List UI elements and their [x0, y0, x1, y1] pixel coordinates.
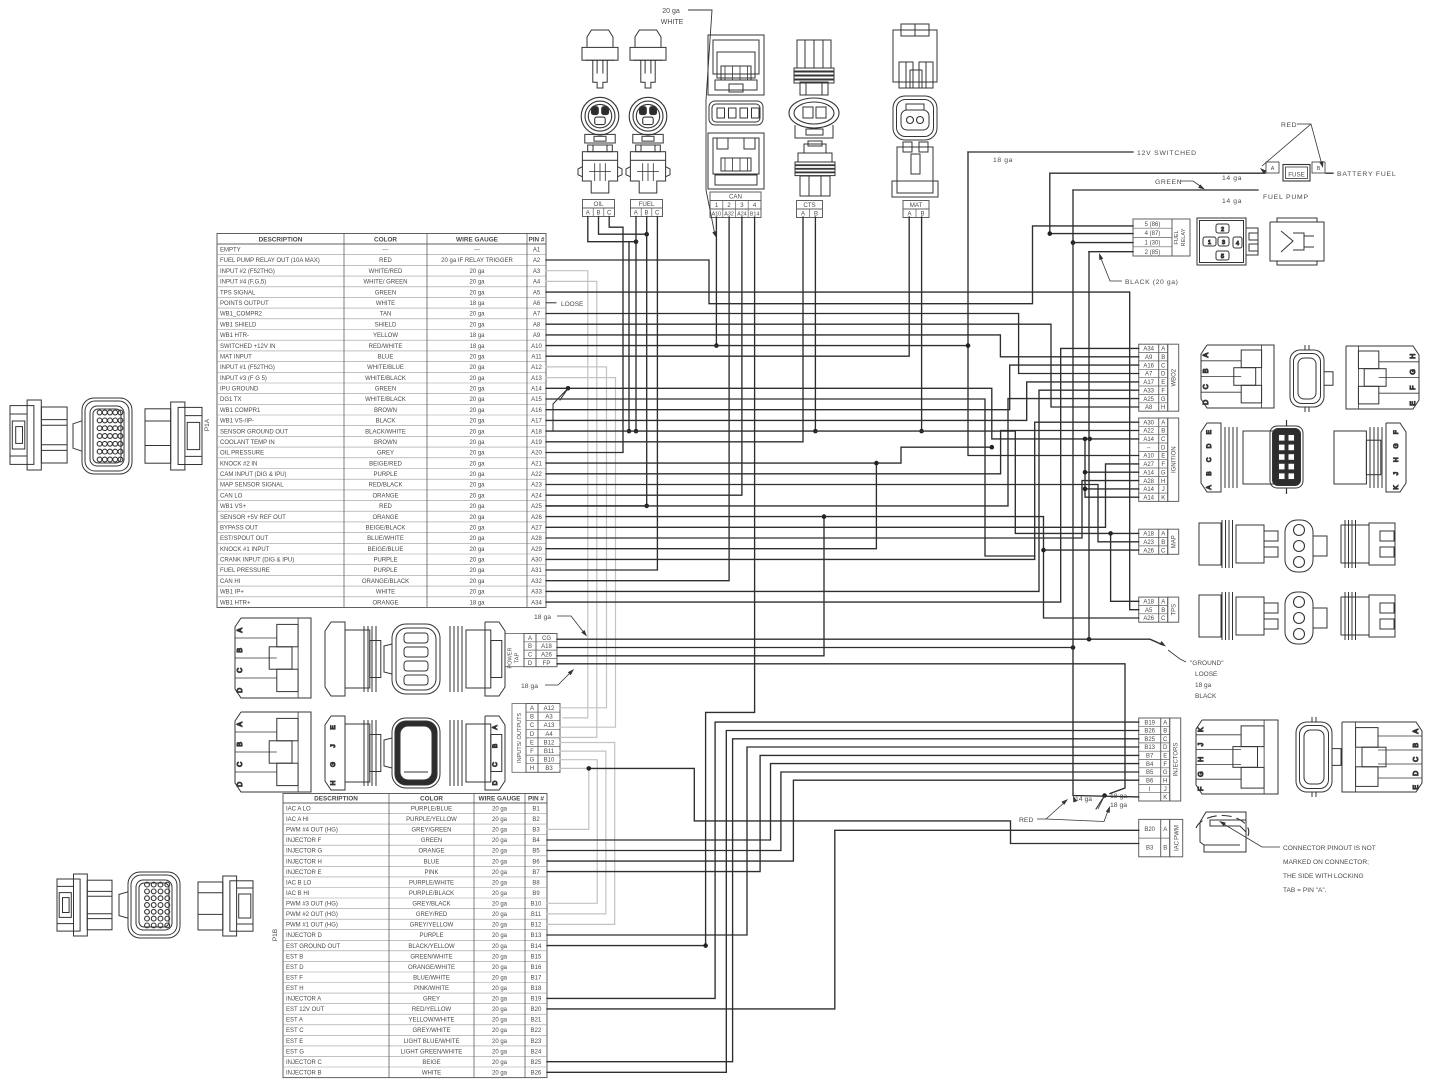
connector CTS top view [794, 40, 834, 95]
svg-text:B3: B3 [1146, 846, 1154, 852]
wire FUEL A down to A18 [635, 217, 637, 432]
svg-text:INJECTOR E: INJECTOR E [286, 870, 322, 876]
svg-text:PWM #4 OUT (HG): PWM #4 OUT (HG) [286, 828, 338, 834]
connector quad1 oval view [384, 624, 440, 694]
svg-text:A12: A12 [531, 365, 542, 371]
svg-text:WB1 COMPR1: WB1 COMPR1 [220, 408, 261, 414]
connector FUEL top view [630, 30, 666, 88]
svg-text:E: E [1163, 754, 1167, 760]
svg-text:B12: B12 [544, 740, 555, 746]
table TPS pins [1139, 597, 1179, 622]
svg-text:20 ga: 20 ga [469, 269, 485, 275]
svg-text:D: D [1163, 745, 1168, 751]
wire A12 to inputs (grey) [546, 367, 607, 708]
connector P1B front view 26-pin [119, 872, 180, 938]
svg-text:B18: B18 [531, 986, 542, 992]
svg-text:K: K [1393, 485, 1400, 490]
svg-text:INJECTORS: INJECTORS [1173, 743, 1179, 777]
svg-text:B21: B21 [531, 1018, 542, 1024]
wire A14 branch to ignition G J K [1085, 439, 1139, 497]
svg-text:20 ga: 20 ga [492, 859, 508, 865]
svg-text:A24: A24 [531, 493, 542, 499]
svg-text:18 ga: 18 ga [534, 614, 551, 621]
svg-text:INPUT #1 (F52THG): INPUT #1 (F52THG) [220, 365, 275, 371]
svg-text:POWER: POWER [508, 647, 514, 668]
svg-text:LOOSE: LOOSE [1195, 671, 1218, 678]
table FUEL RELAY pins [1133, 219, 1190, 256]
svg-text:A26: A26 [1143, 616, 1154, 622]
svg-text:INJECTOR F: INJECTOR F [286, 838, 322, 844]
svg-text:BROWN: BROWN [374, 440, 397, 446]
svg-text:INPUT #3 (F G 5): INPUT #3 (F G 5) [220, 376, 267, 382]
svg-text:A11: A11 [531, 354, 542, 360]
svg-text:20 ga: 20 ga [469, 590, 485, 596]
svg-text:J: J [1164, 787, 1167, 793]
svg-text:IAC PWM: IAC PWM [1174, 825, 1180, 851]
svg-text:B: B [1161, 608, 1165, 614]
svg-text:H: H [1393, 457, 1400, 462]
wire black relay dot on ignition C [1087, 437, 1092, 442]
svg-text:D: D [492, 780, 499, 785]
svg-text:A9: A9 [1145, 355, 1153, 361]
svg-text:INPUT #2 (F52THG): INPUT #2 (F52THG) [220, 269, 275, 275]
svg-text:A27: A27 [531, 526, 542, 532]
svg-text:B3: B3 [545, 766, 553, 772]
svg-text:PURPLE/YELLOW: PURPLE/YELLOW [406, 817, 457, 823]
svg-text:PURPLE/BLUE: PURPLE/BLUE [411, 807, 452, 813]
connector quad1 side view [325, 622, 381, 696]
svg-text:C: C [1161, 616, 1166, 622]
svg-text:RED: RED [1019, 817, 1033, 824]
wire A2 fuel pump relay out [546, 226, 1133, 304]
svg-text:BLUE: BLUE [424, 859, 440, 865]
svg-text:A18: A18 [1143, 532, 1154, 538]
svg-text:KNOCK #1 INPUT: KNOCK #1 INPUT [220, 547, 270, 553]
connector quad2 plug view [235, 712, 311, 792]
svg-text:OIL: OIL [594, 201, 605, 208]
svg-text:A: A [1271, 166, 1275, 172]
svg-text:EST GROUND OUT: EST GROUND OUT [286, 944, 341, 950]
svg-text:SHIELD: SHIELD [375, 322, 397, 328]
connector TPS harness side [1199, 592, 1278, 640]
svg-text:18 ga: 18 ga [993, 157, 1013, 164]
svg-text:BEIGE/BLACK: BEIGE/BLACK [366, 526, 406, 532]
svg-text:A19: A19 [531, 440, 542, 446]
svg-text:20 ga: 20 ga [492, 838, 508, 844]
wire B6 to injector H [547, 780, 1139, 861]
svg-text:CTS: CTS [803, 202, 815, 209]
svg-text:BLUE: BLUE [378, 354, 394, 360]
svg-text:K: K [1161, 495, 1165, 501]
wire B5 to injector G [547, 772, 1139, 851]
svg-text:RED/BLACK: RED/BLACK [368, 483, 402, 489]
svg-text:20 ga: 20 ga [469, 472, 485, 478]
wire A18 branch TPS A [1111, 533, 1139, 601]
svg-text:MARKED ON CONNECTOR;: MARKED ON CONNECTOR; [1283, 859, 1369, 866]
svg-text:A29: A29 [531, 547, 542, 553]
svg-text:WB1 VS-/IP-: WB1 VS-/IP- [220, 419, 254, 425]
wire B11 to inputs F (grey) [547, 751, 606, 914]
svg-text:INJECTOR B: INJECTOR B [286, 1071, 322, 1077]
svg-text:20 ga: 20 ga [469, 365, 485, 371]
svg-text:A4: A4 [533, 280, 541, 286]
wire group [546, 152, 1333, 1072]
wire CAN 2 down to A32 [546, 217, 729, 581]
svg-text:20 ga: 20 ga [469, 440, 485, 446]
svg-text:B: B [237, 742, 244, 747]
svg-text:WB1 IP+: WB1 IP+ [220, 590, 244, 596]
svg-text:B13: B13 [1144, 745, 1155, 751]
table FUEL pins [631, 200, 663, 217]
svg-text:B4: B4 [532, 838, 540, 844]
svg-text:20 ga: 20 ga [469, 483, 485, 489]
svg-text:GREY/RED: GREY/RED [416, 912, 448, 918]
svg-text:20 ga IF RELAY TRIGGER: 20 ga IF RELAY TRIGGER [441, 258, 513, 264]
wire A25 to WBO2 G [546, 399, 1139, 506]
svg-text:PWM #3 OUT (HG): PWM #3 OUT (HG) [286, 902, 338, 908]
svg-text:20 ga: 20 ga [469, 461, 485, 467]
svg-text:EST E: EST E [286, 1039, 303, 1045]
svg-text:G: G [1161, 470, 1166, 476]
svg-text:A22: A22 [531, 472, 542, 478]
wire CAN 3 down to A24 [546, 217, 742, 495]
svg-text:D: D [528, 661, 533, 667]
wire OIL junction to A18 [628, 242, 630, 431]
svg-text:B13: B13 [531, 933, 542, 939]
wire B7 to injector E [547, 755, 1139, 871]
svg-text:A25: A25 [531, 504, 542, 510]
svg-text:B: B [492, 744, 499, 748]
connector CTS bottom view [795, 141, 835, 196]
connector P1A rear side view [10, 400, 67, 470]
svg-text:B26: B26 [1144, 729, 1155, 735]
svg-text:MAP SENSOR SIGNAL: MAP SENSOR SIGNAL [220, 483, 284, 489]
svg-text:A8: A8 [533, 322, 541, 328]
svg-text:14 ga: 14 ga [1222, 175, 1242, 182]
svg-text:20 ga: 20 ga [492, 997, 508, 1003]
svg-text:ORANGE: ORANGE [372, 493, 398, 499]
svg-text:WHITE: WHITE [661, 19, 684, 26]
connector OIL bottom view [578, 145, 622, 193]
svg-text:PIN #: PIN # [529, 236, 545, 243]
svg-text:20 ga: 20 ga [492, 912, 508, 918]
svg-text:G: G [1198, 771, 1205, 776]
svg-text:20 ga: 20 ga [492, 849, 508, 855]
svg-text:COLOR: COLOR [420, 795, 443, 802]
svg-text:CAN HI: CAN HI [220, 579, 241, 585]
svg-text:B: B [1161, 540, 1165, 546]
connector MAT face view [893, 96, 937, 140]
svg-text:EST H: EST H [286, 986, 304, 992]
svg-text:20 ga: 20 ga [469, 419, 485, 425]
svg-text:EST 12V OUT: EST 12V OUT [286, 1007, 325, 1013]
svg-text:ORANGE: ORANGE [418, 849, 444, 855]
svg-text:20 ga: 20 ga [469, 451, 485, 457]
wire CG ground out [557, 639, 1163, 645]
fuse terminal B [1312, 162, 1325, 173]
svg-text:PINK/WHITE: PINK/WHITE [414, 986, 449, 992]
connector quad2 mating view [450, 716, 505, 790]
svg-text:WB1 VS+: WB1 VS+ [220, 504, 247, 510]
svg-text:A14: A14 [1143, 470, 1154, 476]
wire A10 12V switched in [546, 345, 968, 347]
wire A28 to ignition H [546, 481, 1139, 538]
svg-text:H: H [530, 766, 534, 772]
svg-text:WHITE/RED: WHITE/RED [369, 269, 403, 275]
svg-text:PURPLE: PURPLE [373, 568, 397, 574]
svg-text:D: D [1206, 443, 1213, 448]
svg-text:A7: A7 [1145, 372, 1153, 378]
wire A15 dg1 tx [546, 399, 1035, 556]
connector CAN top view [708, 35, 764, 95]
svg-text:YELLOW: YELLOW [373, 333, 398, 339]
svg-text:EST/SPOUT OUT: EST/SPOUT OUT [220, 536, 269, 542]
svg-text:A15: A15 [531, 397, 542, 403]
svg-text:FP: FP [543, 661, 551, 667]
svg-text:20 ga: 20 ga [492, 975, 508, 981]
wire A14 to ignition C [546, 388, 1139, 439]
svg-text:B: B [1161, 355, 1165, 361]
fuse box [1283, 165, 1310, 182]
svg-text:B: B [596, 210, 600, 216]
svg-text:ORANGE/BLACK: ORANGE/BLACK [362, 579, 409, 585]
svg-text:GREY/WHITE: GREY/WHITE [412, 1028, 450, 1034]
svg-text:A17: A17 [1143, 380, 1154, 386]
svg-text:CAM INPUT (DIG & IPU): CAM INPUT (DIG & IPU) [220, 472, 287, 478]
connector TPS face view [1285, 592, 1327, 644]
svg-text:20 ga: 20 ga [492, 1060, 508, 1066]
svg-text:CONNECTOR PINOUT IS NOT: CONNECTOR PINOUT IS NOT [1283, 845, 1376, 852]
svg-text:A9: A9 [533, 333, 541, 339]
wire A9 to WBO2 B [546, 335, 1139, 357]
svg-text:C: C [1161, 548, 1166, 554]
svg-text:RED: RED [379, 258, 392, 264]
svg-text:---: --- [383, 248, 389, 254]
svg-text:5: 5 [1221, 254, 1224, 260]
connector quad1 plug view [235, 618, 311, 698]
svg-text:A: A [634, 210, 638, 216]
svg-text:5 (86): 5 (86) [1145, 222, 1161, 228]
svg-text:C: C [1163, 737, 1168, 743]
connector P1B side view [198, 876, 253, 936]
connector INJECTORS harness side [1196, 720, 1278, 794]
svg-text:INJECTOR H: INJECTOR H [286, 859, 322, 865]
svg-text:20 ga: 20 ga [469, 579, 485, 585]
svg-text:GREEN/WHITE: GREEN/WHITE [410, 954, 452, 960]
svg-text:IGNITION: IGNITION [1171, 446, 1177, 473]
svg-text:G: G [330, 762, 337, 767]
svg-text:20 ga: 20 ga [469, 387, 485, 393]
svg-text:WHITE/BLACK: WHITE/BLACK [365, 397, 406, 403]
wire A26 branch MAP C [1044, 549, 1139, 551]
svg-text:PURPLE/WHITE: PURPLE/WHITE [409, 880, 454, 886]
svg-text:G: G [1161, 397, 1166, 403]
svg-text:G: G [530, 758, 535, 764]
svg-text:14 ga: 14 ga [1075, 796, 1092, 803]
wire A29 knock 1 [546, 463, 876, 549]
wire OIL B join FUEL B [599, 217, 647, 235]
svg-text:PURPLE/BLACK: PURPLE/BLACK [409, 891, 454, 897]
svg-text:B16: B16 [531, 965, 542, 971]
wire B4 to injector F [547, 764, 1139, 840]
wire A17 to WBO2 E [546, 382, 1139, 421]
svg-text:20 ga: 20 ga [492, 1028, 508, 1034]
svg-text:MAT INPUT: MAT INPUT [220, 354, 252, 360]
svg-text:C: C [1161, 363, 1166, 369]
svg-text:K: K [1198, 727, 1205, 732]
svg-text:BLACK (20 ga): BLACK (20 ga) [1125, 279, 1179, 286]
svg-text:F: F [530, 749, 534, 755]
svg-text:B: B [644, 210, 648, 216]
svg-text:20 ga: 20 ga [492, 986, 508, 992]
wire A8 to WBO2 H [546, 324, 1139, 407]
svg-text:A26: A26 [541, 653, 552, 659]
svg-text:TAB = PIN "A".: TAB = PIN "A". [1283, 887, 1327, 894]
wire 12V switched drop to ignition E [968, 152, 1139, 456]
svg-text:A1: A1 [533, 248, 541, 254]
svg-text:B3: B3 [532, 828, 540, 834]
svg-text:COLOR: COLOR [374, 236, 397, 243]
svg-text:FUEL: FUEL [639, 201, 655, 208]
svg-text:GREEN: GREEN [421, 838, 442, 844]
svg-text:20 ga: 20 ga [492, 817, 508, 823]
svg-text:A23: A23 [531, 483, 542, 489]
svg-text:18 ga: 18 ga [469, 600, 485, 606]
svg-text:A: A [1413, 729, 1420, 734]
svg-text:B7: B7 [1146, 754, 1154, 760]
wire A18 sensor ground bus [546, 431, 1139, 533]
svg-text:20 ga: 20 ga [492, 891, 508, 897]
svg-text:A: A [528, 636, 532, 642]
svg-text:GREY/GREEN: GREY/GREEN [411, 828, 451, 834]
wire CAN 1 down to A10 [715, 217, 717, 346]
wire MAT A down to A11 [546, 217, 909, 356]
label POWER TAP [505, 634, 524, 667]
svg-text:INJECTOR G: INJECTOR G [286, 849, 323, 855]
svg-text:FUSE: FUSE [1288, 172, 1305, 179]
svg-text:EST F: EST F [286, 975, 303, 981]
svg-text:BLACK: BLACK [1195, 693, 1217, 700]
svg-text:GREEN: GREEN [375, 290, 396, 296]
svg-text:20 ga: 20 ga [492, 1049, 508, 1055]
svg-text:E: E [1206, 429, 1213, 434]
svg-text:B6: B6 [1146, 779, 1154, 785]
svg-text:20 ga: 20 ga [469, 354, 485, 360]
connector WBO2 mating side [1346, 346, 1419, 409]
svg-text:18 ga: 18 ga [469, 333, 485, 339]
table INPUTS OUTPUTS pins [526, 704, 560, 773]
wire A30 to ignition A [546, 422, 1139, 559]
svg-text:A18: A18 [531, 429, 542, 435]
svg-text:J: J [330, 744, 337, 747]
svg-text:A4: A4 [545, 732, 553, 738]
svg-text:TAP: TAP [515, 653, 521, 664]
label INPUTS OUTPUTS [512, 704, 526, 773]
svg-text:D: D [530, 732, 535, 738]
wire OIL C down to A20 [546, 217, 623, 453]
svg-text:E: E [330, 725, 337, 730]
svg-text:C: C [607, 210, 612, 216]
wire B12 to inputs E (grey) [547, 743, 615, 925]
connector CAN face view [709, 101, 763, 125]
svg-text:CAN: CAN [729, 193, 742, 200]
svg-text:D: D [1413, 771, 1420, 776]
svg-text:B25: B25 [1144, 737, 1155, 743]
svg-text:B15: B15 [531, 954, 542, 960]
svg-text:WHITE/BLACK: WHITE/BLACK [365, 376, 406, 382]
svg-text:KNOCK #2 IN: KNOCK #2 IN [220, 461, 257, 467]
svg-text:J: J [1393, 472, 1400, 475]
svg-text:A: A [1203, 353, 1210, 358]
svg-text:RED: RED [1281, 122, 1297, 129]
svg-text:MAT: MAT [910, 202, 923, 209]
svg-text:A31: A31 [531, 568, 542, 574]
svg-text:A25: A25 [1143, 397, 1154, 403]
wire B13 to injector D [547, 747, 1139, 935]
connector MAT bottom view [892, 142, 938, 197]
svg-text:"GROUND": "GROUND" [1190, 660, 1224, 667]
svg-text:A18: A18 [541, 644, 552, 650]
svg-text:E: E [1161, 454, 1165, 460]
wire A23 to MAP B [546, 485, 1139, 542]
svg-text:C: C [1206, 457, 1213, 462]
wire CAN 4 down to B14 est ground [547, 217, 755, 946]
wire relay 1-30 [1073, 242, 1133, 244]
svg-text:20 ga: 20 ga [492, 807, 508, 813]
connector FUEL bottom view [626, 145, 670, 193]
wire A14 shield diagonals [553, 388, 568, 430]
svg-text:A8: A8 [1145, 405, 1153, 411]
svg-text:B10: B10 [544, 758, 555, 764]
svg-text:---: --- [474, 248, 480, 254]
svg-text:A: A [1161, 532, 1165, 538]
svg-text:EST A: EST A [286, 1018, 303, 1024]
table CTS pins [797, 201, 823, 218]
connector FUEL RELAY face view [1197, 218, 1258, 265]
svg-text:H: H [1410, 354, 1417, 359]
wire FUEL C down to A31 [546, 217, 657, 571]
svg-text:WB1 HTR-: WB1 HTR- [220, 333, 249, 339]
svg-text:PURPLE: PURPLE [373, 472, 397, 478]
svg-text:B19: B19 [531, 997, 542, 1003]
connector MAP face view [1285, 520, 1327, 572]
svg-text:B14: B14 [531, 944, 542, 950]
wire 14ga injector K junction [1102, 793, 1107, 798]
svg-text:20 ga: 20 ga [469, 558, 485, 564]
connector quad2 oval view [384, 718, 440, 788]
svg-text:BYPASS OUT: BYPASS OUT [220, 526, 258, 532]
svg-text:GREY: GREY [377, 451, 394, 457]
svg-text:PWM #2 OUT (HG): PWM #2 OUT (HG) [286, 912, 338, 918]
svg-text:18 ga: 18 ga [469, 301, 485, 307]
svg-text:FUEL PRESSURE: FUEL PRESSURE [220, 568, 270, 574]
svg-text:C: C [530, 723, 535, 729]
svg-text:A6: A6 [533, 301, 541, 307]
svg-text:A: A [492, 725, 499, 730]
wire relay 2-85 black to ground [1089, 251, 1133, 253]
svg-text:D: D [1161, 445, 1166, 451]
svg-text:E: E [530, 740, 534, 746]
svg-text:D: D [1161, 372, 1166, 378]
svg-text:IPU GROUND: IPU GROUND [220, 387, 259, 393]
svg-text:POINTS OUTPUT: POINTS OUTPUT [220, 301, 269, 307]
wire B20 EST 12V to IAC A [547, 830, 1139, 1009]
svg-text:20 ga: 20 ga [492, 1039, 508, 1045]
connector OIL top view [582, 30, 618, 88]
svg-text:A17: A17 [531, 419, 542, 425]
table OIL pins [583, 200, 615, 217]
svg-text:EST G: EST G [286, 1049, 304, 1055]
